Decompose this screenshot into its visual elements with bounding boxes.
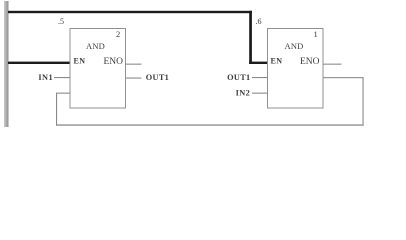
- svg-text:AND: AND: [285, 41, 304, 51]
- wire: feedback right vertical: [363, 77, 364, 126]
- wire: feedback into U2 third input: [56, 93, 70, 94]
- wire: rail to branch, top horizontal (thick): [8, 11, 252, 13]
- wire: OUT1 to U1 input: [252, 77, 268, 78]
- wire: U2 ENO stub: [126, 64, 142, 65]
- svg-text:.6: .6: [256, 17, 262, 26]
- svg-text:EN: EN: [271, 57, 283, 66]
- svg-text:2: 2: [116, 29, 120, 39]
- wire: branch vertical down to U1 EN (thick): [249, 11, 252, 64]
- svg-text:IN1: IN1: [38, 73, 53, 82]
- svg-text:AND: AND: [86, 41, 105, 51]
- svg-text:ENO: ENO: [300, 57, 320, 67]
- wire: U1 output horizontal to feedback corner: [323, 77, 364, 78]
- AND block U1 (right block) body: [268, 29, 324, 109]
- wire: feedback left vertical up to U2 third input: [56, 93, 57, 126]
- svg-text:OUT1: OUT1: [146, 73, 169, 82]
- wire: U1 ENO stub: [323, 64, 342, 65]
- svg-text:ENO: ENO: [104, 57, 124, 67]
- wire: feedback bottom horizontal: [56, 124, 364, 125]
- wire: branch into U1 EN pin (thick): [249, 62, 267, 64]
- svg-text:OUT1: OUT1: [227, 73, 250, 82]
- wire: IN2 to U1 input: [252, 93, 268, 94]
- svg-text:IN2: IN2: [236, 89, 251, 98]
- svg-text:EN: EN: [74, 57, 86, 66]
- power rail: [4, 1, 9, 127]
- wire: IN1 to U2 input: [54, 77, 70, 78]
- AND block U2 (left block) body: [70, 29, 126, 109]
- svg-text:.5: .5: [58, 17, 64, 26]
- wire: U2 output to OUT1 label: [126, 78, 142, 79]
- svg-text:1: 1: [314, 29, 318, 39]
- wire: rail to U2 EN pin (thick): [8, 62, 70, 64]
